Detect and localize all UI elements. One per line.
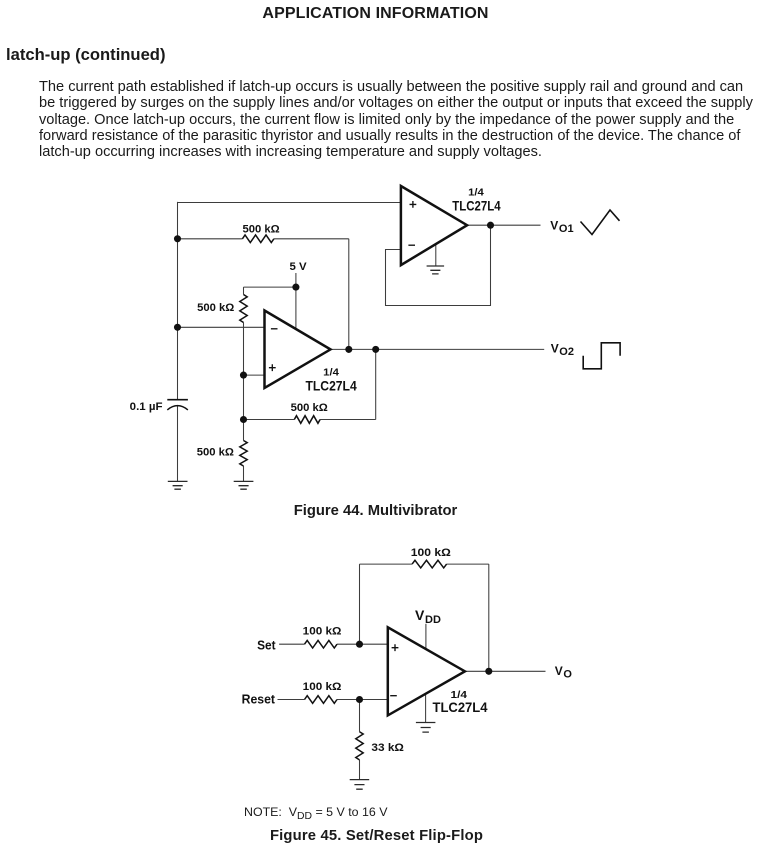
figure 45 caption <box>0 828 753 844</box>
waveform: triangle wave at VO1 <box>581 210 620 235</box>
wire: 33k resistor leads <box>359 700 361 780</box>
label: op-amp U2 TLC27L4 <box>306 378 357 394</box>
junction: plus node / R4 <box>240 416 247 423</box>
svg-text:TLC27L4: TLC27L4 <box>306 378 357 394</box>
value label: C1 0.1 uF <box>130 401 163 413</box>
net label: Set <box>257 637 276 652</box>
label: op-amp U3 TLC27L4 <box>433 699 488 715</box>
body paragraph <box>39 79 761 160</box>
svg-text:DD: DD <box>425 614 441 626</box>
net label: Reset <box>242 691 276 706</box>
wire: R6 right vertical to output node <box>488 564 490 671</box>
svg-text:33 kΩ: 33 kΩ <box>371 742 404 754</box>
net label: 5 V <box>290 261 307 273</box>
value label: R7 100 kOhm <box>303 626 342 638</box>
wire: R5 bottom lead to ground <box>243 466 245 481</box>
wire: top wire left rail to op-amp1 + input <box>178 202 401 204</box>
ground (left rail, fig44) <box>168 481 188 489</box>
wire: plus-node vertical (R2 bottom through + input and R4 node) <box>243 323 245 441</box>
wire: op-amp2 inverting input from left rail <box>178 326 265 328</box>
ground (under op-amp U1) <box>427 266 445 274</box>
svg-text:O: O <box>563 669 572 681</box>
value label: R1 500 kOhm <box>243 223 280 235</box>
capacitor C1 0.1uF <box>167 400 188 410</box>
pin -: op-amp U2 inverting <box>271 328 278 330</box>
svg-text:500 kΩ: 500 kΩ <box>197 302 234 314</box>
svg-text:500 kΩ: 500 kΩ <box>291 402 328 414</box>
wire: VDD stub to op-amp3 top edge <box>425 624 427 649</box>
op-amp U2 (fig44 bottom, 1/4 TLC27L4) <box>265 311 331 389</box>
pin -: op-amp U1 inverting <box>408 244 415 246</box>
wire: op-amp2 non-inverting input stub <box>244 374 265 376</box>
junction: op-amp U1 output <box>487 222 494 229</box>
wire: op-amp3 output to VO <box>465 670 546 672</box>
pin -: op-amp U3 inverting <box>390 695 397 697</box>
ground (R5, fig44) <box>234 481 254 489</box>
wire: op-amp3 ground stem <box>425 694 427 722</box>
wire: 5V node to R2 top <box>244 286 297 288</box>
resistor R1 500k (horizontal, fig44 top) <box>242 235 274 243</box>
pin +: op-amp U3 non-inverting <box>392 644 399 651</box>
junction: output / node X <box>345 346 352 353</box>
value label: R2 500 kOhm <box>197 302 234 314</box>
svg-text:5 V: 5 V <box>290 261 307 273</box>
wire: left rail vertical (top to capacitor) <box>177 202 179 400</box>
wire: feedback resistor R6 top run <box>360 563 489 565</box>
wire: Set input line <box>279 643 388 645</box>
wire: output drop to feedback resistor R4 <box>375 349 377 419</box>
wire: R6 left vertical to Set node <box>359 564 361 644</box>
pin +: op-amp U2 non-inverting <box>269 364 276 371</box>
label: op-amp U1 1/4 <box>468 187 484 198</box>
wire: R2 top lead <box>243 287 245 294</box>
wire: op-amp1 feedback loop output to inverting input <box>386 225 491 305</box>
junction: left rail / R1 <box>174 235 181 242</box>
junction: plus node / + input <box>240 372 247 379</box>
svg-text:Set: Set <box>257 637 276 652</box>
svg-text:100 kΩ: 100 kΩ <box>303 626 342 638</box>
svg-text:100 kΩ: 100 kΩ <box>411 547 451 559</box>
resistor R8 100k (Reset) <box>305 696 338 704</box>
figure 44 caption <box>0 503 751 519</box>
svg-text:V: V <box>550 218 558 232</box>
svg-text:O2: O2 <box>559 346 574 358</box>
waveform: square wave at VO2 <box>583 343 620 369</box>
wire: Reset input line <box>278 699 388 701</box>
wire: op-amp1 output to VO1 <box>467 224 540 226</box>
op-amp U1 (fig44 top, 1/4 TLC27L4) <box>401 186 467 265</box>
label: op-amp U1 TLC27L4 <box>452 197 500 213</box>
junction: Set node <box>356 641 363 648</box>
svg-text:V: V <box>551 342 559 356</box>
wire: op-amp1 ground stem <box>435 244 437 265</box>
wire: left rail below capacitor to ground <box>177 406 179 481</box>
svg-text:500 kΩ: 500 kΩ <box>243 223 280 235</box>
value label: R8 100 kOhm <box>303 681 342 693</box>
svg-text:100 kΩ: 100 kΩ <box>303 681 342 693</box>
ground (under op-amp U3) <box>416 723 436 733</box>
label: op-amp U3 1/4 <box>451 690 468 701</box>
junction: Reset node <box>356 696 363 703</box>
resistor R5 500k (vertical to ground) <box>240 441 247 467</box>
svg-text:TLC27L4: TLC27L4 <box>433 699 488 715</box>
value label: R6 100 kOhm <box>411 547 451 559</box>
svg-text:TLC27L4: TLC27L4 <box>452 197 500 213</box>
junction: op-amp U3 output <box>485 668 492 675</box>
net label: VO1 <box>550 218 573 235</box>
wire: 5V stub down to op-amp2 top edge <box>295 273 297 329</box>
value label: R4 500 kOhm <box>291 402 328 414</box>
resistor R7 100k (Set) <box>305 640 338 648</box>
net label: VO2 <box>551 342 574 359</box>
resistor R6 100k (fig45 feedback) <box>412 560 447 568</box>
wire: R4 leads <box>244 419 376 421</box>
svg-text:O1: O1 <box>559 223 574 235</box>
svg-text:500 kΩ: 500 kΩ <box>197 446 234 458</box>
resistor R4 500k (horizontal feedback) <box>294 416 320 424</box>
value label: R9 33 kOhm <box>371 742 404 754</box>
page title <box>0 6 751 22</box>
junction: 5V node <box>292 284 299 291</box>
junction: left rail / inverting input <box>174 324 181 331</box>
net label: VO <box>555 664 573 681</box>
resistor R2 500k (vertical, from 5V) <box>240 295 247 323</box>
section heading <box>6 46 165 63</box>
ground (under 33k) <box>350 780 370 790</box>
svg-text:V: V <box>555 664 563 678</box>
value label: R5 500 kOhm <box>197 446 234 458</box>
pin +: op-amp U1 non-inverting <box>410 201 417 208</box>
svg-text:Reset: Reset <box>242 691 276 706</box>
net label: VDD <box>415 607 441 626</box>
svg-text:0.1 µF: 0.1 µF <box>130 401 163 413</box>
wire: op-amp2 output line to VO2 <box>331 348 545 350</box>
junction: output / R4 drop <box>372 346 379 353</box>
resistor R9 33k (vertical) <box>356 732 363 760</box>
wire: resistor R1 leads and node X drop to output <box>178 239 349 350</box>
note under figure 45 <box>244 805 387 821</box>
op-amp U3 (fig45, 1/4 TLC27L4) <box>388 627 465 715</box>
svg-text:V: V <box>415 607 425 623</box>
label: op-amp U2 1/4 <box>323 367 339 378</box>
